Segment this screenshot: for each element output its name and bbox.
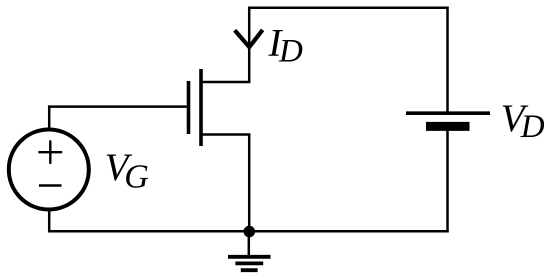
svg-text:G: G [124,159,149,196]
wire right lower vertical (battery - to bottom rail) [446,126,449,232]
battery VD negative plate (short thick) [426,122,470,131]
voltage source VG circle [9,130,89,210]
svg-text:D: D [520,109,545,145]
transistor gate bar [187,81,191,134]
source stub horizontal [201,133,250,136]
wire VG bottom vertical [48,208,51,231]
drain stub horizontal [201,81,250,84]
VG minus sign [39,184,62,186]
wire source vertical [248,135,251,232]
ground bar 2 [235,261,263,265]
wire right upper vertical (to battery +) [446,7,449,112]
current arrow ID [235,30,263,47]
battery VD positive plate (long thin) [406,111,490,115]
wire top horizontal (drain to battery) [248,7,449,10]
junction node dot [244,226,256,238]
wire VG top vertical [48,107,51,131]
ground bar 3 [241,268,258,272]
VG plus sign [38,140,62,164]
ground bar 1 [228,255,271,259]
ground stub vertical [248,231,251,255]
wire gate horizontal [48,105,187,108]
transistor channel bar [199,69,203,146]
svg-text:D: D [278,34,303,70]
wire bottom rail horizontal [48,230,449,233]
wire drain vertical [248,8,251,82]
